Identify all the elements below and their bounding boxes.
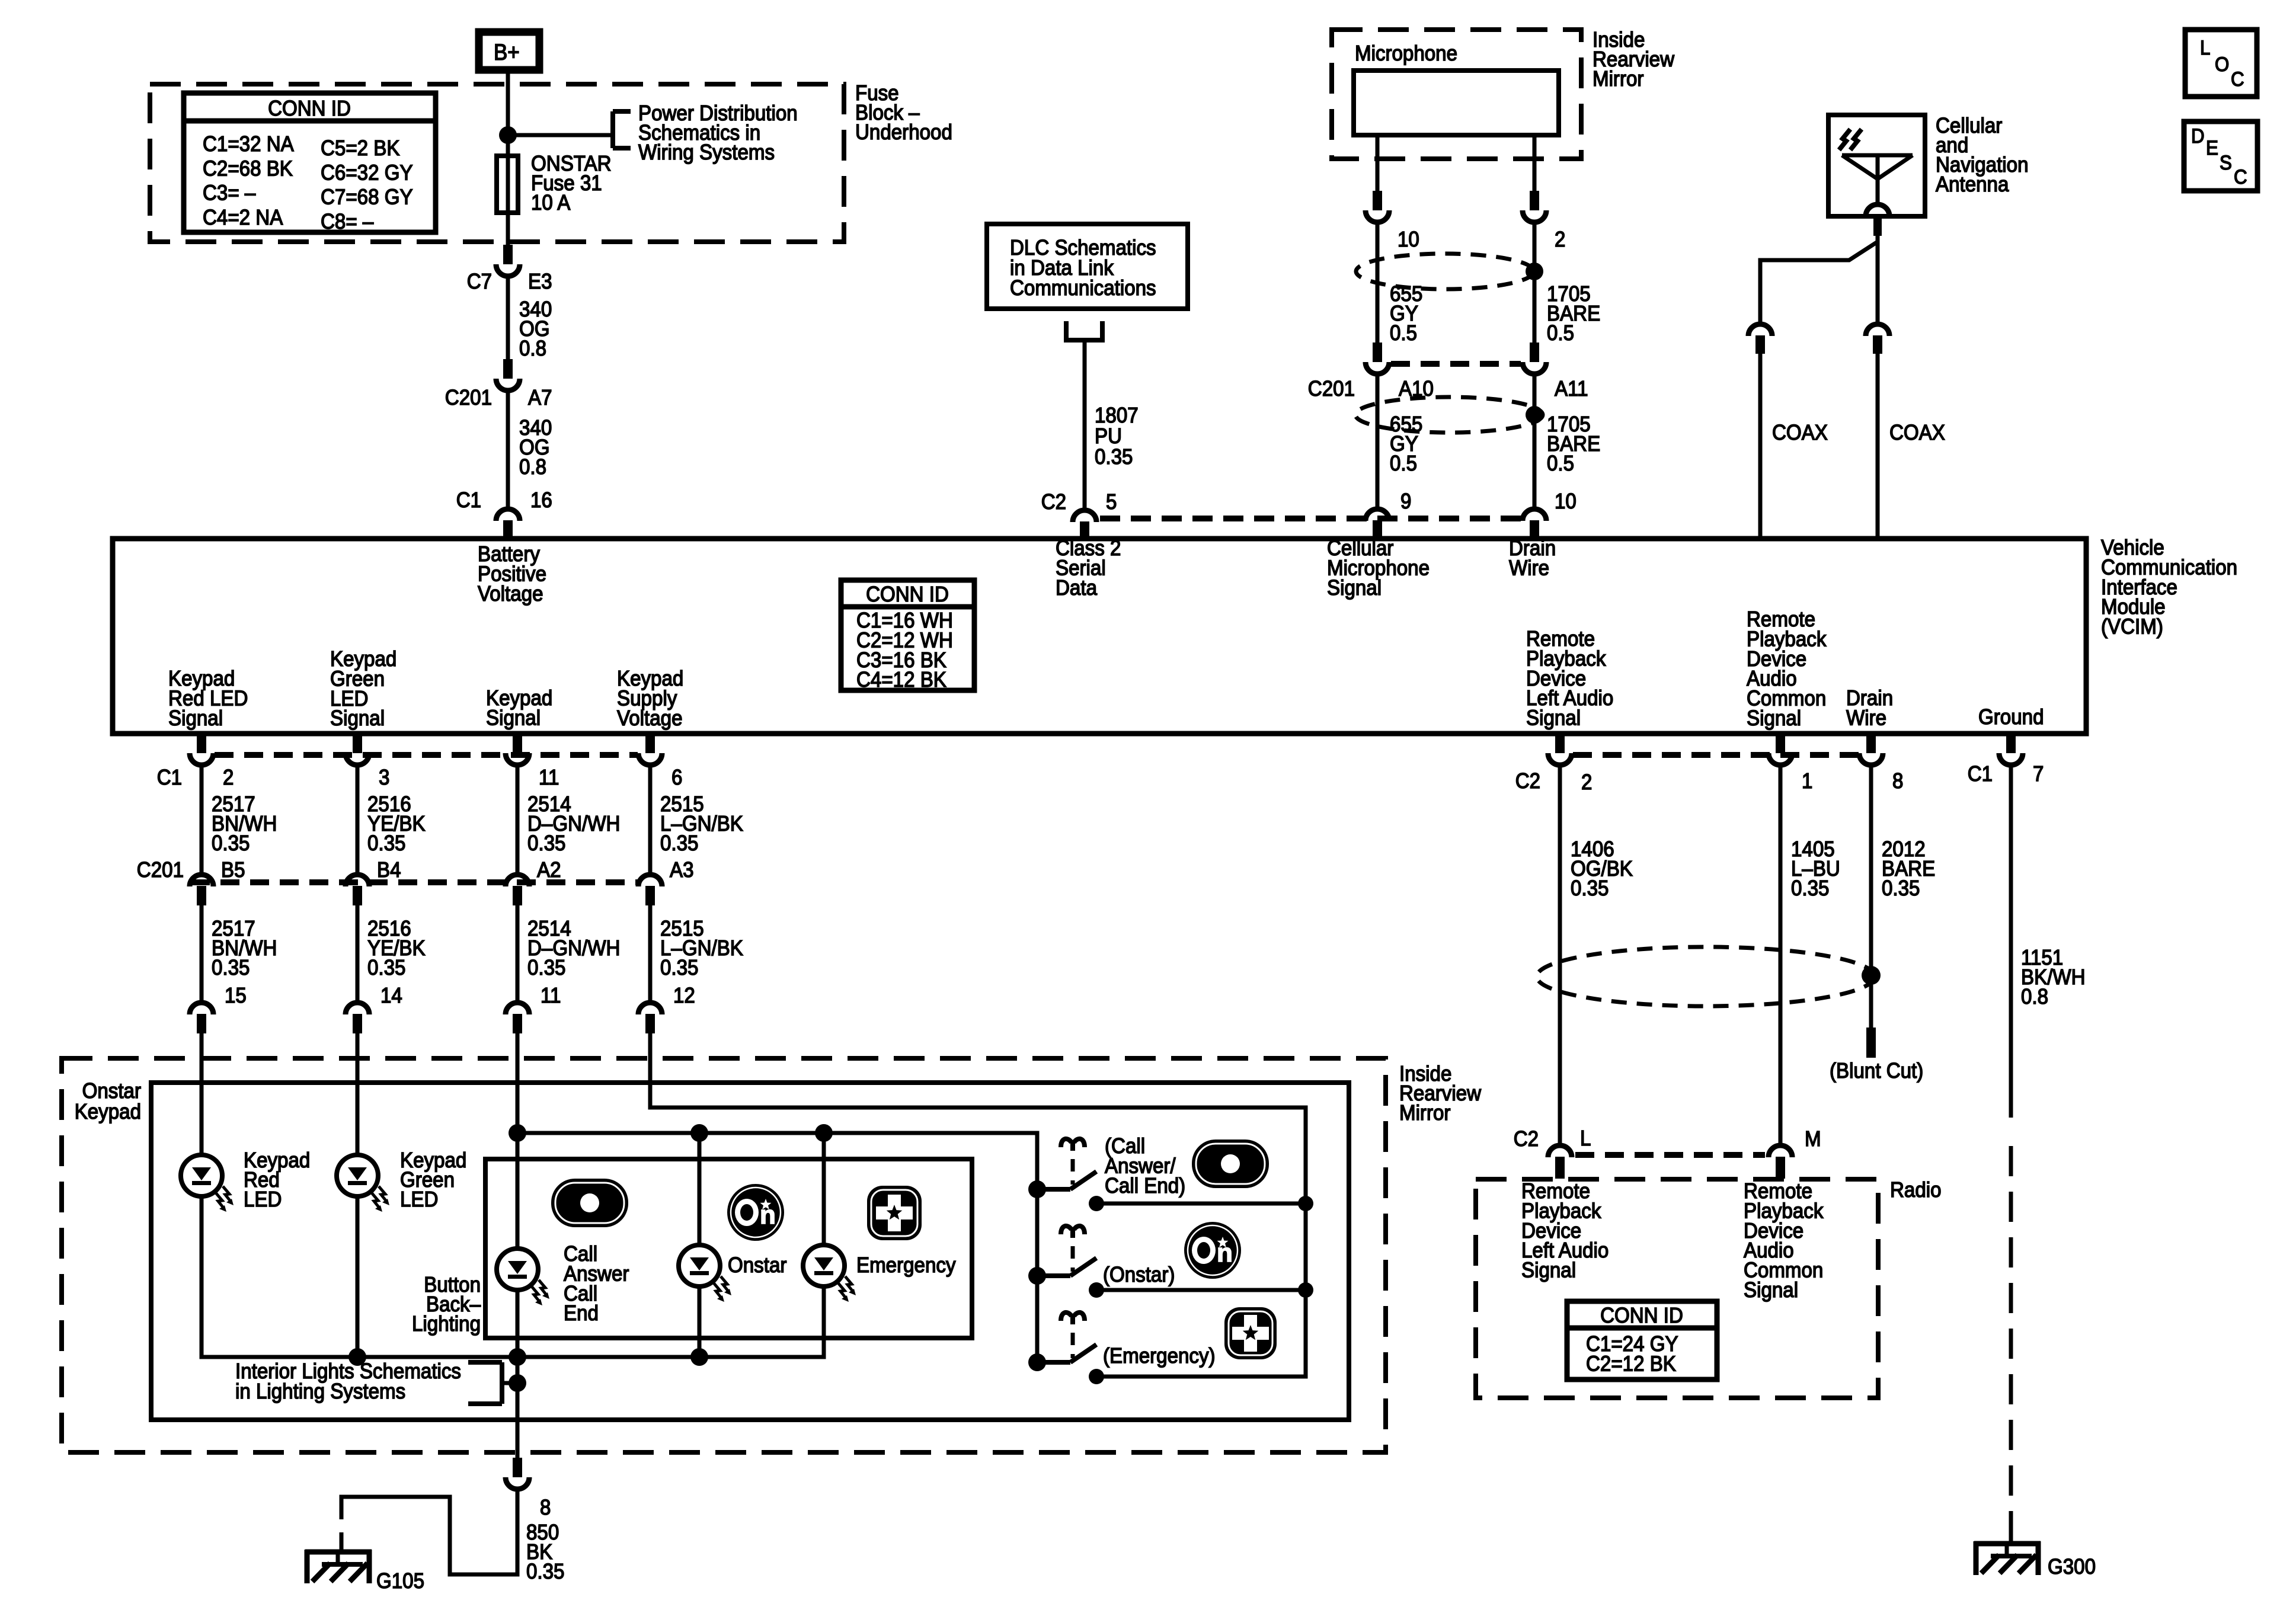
wire: circuit 2514 seg1 [516, 766, 520, 875]
svg-text:Mirror: Mirror [1399, 1100, 1450, 1125]
svg-text:Antenna: Antenna [1936, 172, 2009, 196]
wire: red led to rail [202, 1196, 824, 1357]
junction node on B+ wire [499, 126, 517, 144]
connector C2 pin 2 [1548, 734, 1572, 765]
microphone dashed box [1332, 30, 1581, 159]
junction dot supply row1 [1298, 1196, 1313, 1211]
bracket: interior lights pointer [500, 1362, 504, 1404]
wire: G105 stub [340, 1532, 344, 1553]
connector mic signal pin 9 at VCIM [1366, 509, 1389, 540]
svg-text:0.5: 0.5 [1547, 451, 1574, 475]
dashed bus radio row [1575, 1152, 1765, 1158]
connector C201/A10 [1366, 343, 1389, 374]
svg-text:COAX: COAX [1772, 420, 1828, 444]
junction dot cathode rail green [348, 1348, 366, 1366]
VCIM module box [113, 539, 2086, 734]
connector keypad pin 15 [190, 1003, 213, 1033]
twisted pair ellipse (mic) [1356, 254, 1534, 289]
svg-text:C1: C1 [1968, 761, 1993, 786]
connector C201/A7 [496, 359, 520, 391]
junction dot led rail onstar [690, 1124, 708, 1142]
DESC reference box [2184, 121, 2257, 191]
switch emergency lever [1070, 1345, 1096, 1362]
wire: coax left [1758, 354, 1763, 537]
icon onstar (keypad) [727, 1184, 784, 1241]
wire: keypad signal into keypad [516, 1033, 520, 1133]
connector C201 pin B4 [346, 875, 369, 905]
connector C201 pin B5 [190, 875, 213, 905]
antenna connector cup [1866, 204, 1889, 216]
wire: 1151 BK/WH solid [2009, 766, 2013, 1118]
svg-text:E: E [2206, 137, 2218, 159]
connector pin 1 (audio common) [1769, 734, 1792, 765]
twisted pair ellipse (audio) [1537, 947, 1875, 1006]
twisted pair ellipse 2 (C201) [1355, 397, 1543, 433]
svg-text:CONN ID: CONN ID [1600, 1303, 1683, 1327]
svg-text:11: 11 [539, 765, 559, 789]
svg-text:0.35: 0.35 [1095, 444, 1133, 469]
svg-text:Keypad: Keypad [75, 1099, 141, 1124]
svg-text:E3: E3 [528, 269, 552, 293]
svg-text:2: 2 [1555, 227, 1565, 251]
svg-text:Signal: Signal [1521, 1258, 1576, 1282]
svg-text:G105: G105 [376, 1569, 424, 1593]
svg-text:C2: C2 [1515, 769, 1540, 793]
ground G105 [305, 1550, 372, 1583]
svg-text:C7: C7 [467, 269, 492, 293]
svg-text:O: O [2215, 53, 2229, 76]
junction dot cathode rail signal [509, 1348, 526, 1366]
connector C201 pin A3 [638, 875, 662, 905]
svg-text:C5=2 BK: C5=2 BK [321, 136, 400, 160]
svg-text:C2: C2 [1514, 1126, 1539, 1151]
switch call answer/call end pivot [1028, 1180, 1046, 1198]
connector coax left [1748, 324, 1772, 354]
wire: mic left lead [1376, 135, 1380, 192]
bracket: DLC off-page connector [1066, 321, 1102, 340]
connector C1 pin 3 [346, 734, 369, 765]
connector M at radio [1769, 1145, 1792, 1179]
svg-text:15: 15 [225, 983, 247, 1007]
svg-text:L: L [1580, 1126, 1591, 1150]
svg-text:0.35: 0.35 [527, 831, 566, 855]
connector mic pin 2 [1523, 191, 1546, 222]
svg-text:S: S [2220, 152, 2232, 174]
svg-text:C2=68 BK: C2=68 BK [203, 156, 293, 180]
svg-text:Onstar: Onstar [728, 1253, 786, 1277]
svg-text:Voltage: Voltage [617, 706, 683, 730]
svg-text:0.8: 0.8 [519, 454, 546, 479]
svg-text:C201: C201 [445, 385, 492, 409]
svg-text:2: 2 [223, 765, 234, 789]
svg-text:7: 7 [2033, 761, 2044, 786]
junction dot supply row2 [1298, 1282, 1313, 1298]
svg-text:(Onstar): (Onstar) [1103, 1262, 1175, 1286]
svg-text:0.35: 0.35 [660, 831, 699, 855]
svg-text:C1: C1 [157, 765, 182, 789]
connector keypad pin 8 [506, 1458, 529, 1489]
svg-text:8: 8 [1892, 769, 1903, 793]
svg-text:C1: C1 [456, 488, 481, 512]
svg-text:0.35: 0.35 [527, 955, 566, 980]
power symbol B+ box [479, 32, 539, 70]
svg-text:Wire: Wire [1846, 705, 1886, 729]
dashed bus C201 row [191, 879, 638, 885]
connector C7/E3 [496, 245, 520, 276]
svg-text:0.8: 0.8 [2021, 984, 2048, 1009]
svg-text:Call End): Call End) [1105, 1173, 1185, 1198]
wire: circuit 2517 seg2 [200, 905, 204, 1003]
svg-text:Ground: Ground [1978, 705, 2044, 729]
connector C201/A11 [1523, 343, 1546, 374]
svg-text:(Blunt Cut): (Blunt Cut) [1830, 1058, 1923, 1083]
svg-text:B4: B4 [377, 857, 401, 882]
switch onstar lever [1070, 1258, 1096, 1276]
svg-text:C2=12 BK: C2=12 BK [1586, 1351, 1676, 1375]
dashed bus VCIM top row [1100, 516, 1521, 521]
wire: 1705 BARE segment 1 [1533, 223, 1537, 344]
connector keypad pin 12 [638, 1003, 662, 1033]
icon emergency (switch) [1224, 1307, 1277, 1359]
svg-text:L: L [2200, 37, 2210, 59]
svg-text:C201: C201 [137, 857, 184, 882]
wire: coax right [1876, 354, 1880, 537]
svg-text:C: C [2234, 166, 2247, 188]
switch call answer/call end lever [1070, 1172, 1096, 1189]
svg-text:6: 6 [671, 765, 682, 789]
wire: emergency led column [822, 1133, 826, 1245]
wire: circuit 2516 seg1 [356, 766, 360, 875]
svg-text:C7=68 GY: C7=68 GY [321, 185, 413, 209]
svg-text:Microphone: Microphone [1355, 41, 1457, 65]
LED keypad green [337, 1155, 389, 1212]
junction dot cathode rail onstar [690, 1348, 708, 1366]
icon call answer (switch) [1192, 1140, 1269, 1188]
connector C1 pin 6 [638, 734, 662, 765]
svg-text:Emergency: Emergency [856, 1253, 956, 1277]
svg-text:C8= –: C8= – [321, 209, 373, 233]
blunt cut terminal [1866, 1028, 1876, 1058]
wire: 1151 BK/WH dashed to G300 [2009, 1146, 2013, 1523]
connector C2 pin 5 at VCIM [1073, 510, 1096, 540]
svg-text:Radio: Radio [1890, 1177, 1942, 1202]
svg-text:Underhood: Underhood [855, 120, 952, 144]
svg-text:1: 1 [1802, 769, 1812, 793]
LED onstar [679, 1245, 731, 1302]
svg-text:10 A: 10 A [531, 190, 570, 215]
connector pin 8 (drain) [1859, 734, 1883, 765]
connector C2/L at radio [1548, 1145, 1572, 1179]
switch onstar pivot [1028, 1267, 1046, 1285]
switch call answer/call end actuator [1061, 1139, 1085, 1185]
wire: circuit 2516 seg2 [356, 905, 360, 1003]
wire: onstar led column [698, 1133, 702, 1245]
wire: 655 GY segment 2 [1376, 375, 1380, 508]
connector keypad pin 14 [346, 1003, 369, 1033]
wire: keypad signal exit [516, 1379, 520, 1458]
wire: circuit 2514 seg2 [516, 905, 520, 1003]
wire: circuit 2515 seg1 [648, 766, 653, 875]
svg-text:CONN ID: CONN ID [268, 96, 351, 120]
svg-text:C4=2 NA: C4=2 NA [203, 205, 283, 229]
svg-text:Signal: Signal [168, 706, 223, 730]
wire: circuit 2517 seg1 [200, 766, 204, 875]
radio dashed box [1476, 1179, 1878, 1398]
button backlighting box [485, 1159, 972, 1338]
svg-text:0.5: 0.5 [1390, 321, 1417, 345]
antenna RF zigzag marks [1839, 129, 1850, 150]
svg-text:Mirror: Mirror [1593, 66, 1643, 91]
svg-text:CONN ID: CONN ID [866, 582, 949, 606]
svg-text:5: 5 [1106, 489, 1117, 514]
ground G300 [1974, 1541, 2041, 1575]
wire: 1406 OG/BK [1558, 766, 1562, 1143]
wire: 1405 L-BU [1779, 766, 1783, 1143]
wire: 850 BK routing [341, 1490, 517, 1574]
wire: 1705 BARE segment 2 [1533, 375, 1537, 508]
svg-text:COAX: COAX [1889, 420, 1945, 444]
svg-text:10: 10 [1398, 227, 1419, 251]
switch call answer/call end output row [1089, 1196, 1104, 1211]
connector C1 pin 11 [506, 734, 529, 765]
junction dot led rail emergency [815, 1124, 833, 1142]
cellular and navigation antenna box [1828, 115, 1925, 216]
wire: mic right lead [1533, 135, 1537, 192]
svg-text:End: End [564, 1301, 599, 1325]
wire: keypad red led feed [200, 1033, 204, 1156]
switch emergency pivot [1028, 1353, 1046, 1371]
svg-text:A11: A11 [1555, 376, 1588, 401]
bracket: power distribution pointer [610, 111, 615, 148]
CONN ID table (fuse block) [184, 93, 436, 232]
antenna symbol [1842, 153, 1913, 158]
wire: 340 OG segment 2 [506, 392, 510, 508]
switch emergency output row [1089, 1369, 1104, 1384]
connector C201 pin A2 [506, 875, 529, 905]
wire: B+ to fuse [506, 73, 510, 245]
svg-text:C2: C2 [1041, 489, 1066, 514]
junction dot on drain (mic ellipse) [1526, 263, 1543, 280]
svg-text:0.5: 0.5 [1390, 451, 1417, 475]
wire: 340 OG segment 1 [506, 277, 510, 360]
svg-text:Signal: Signal [486, 705, 541, 729]
LED call answer [497, 1249, 549, 1305]
svg-text:D: D [2191, 125, 2205, 148]
svg-text:0.35: 0.35 [1571, 876, 1609, 900]
LED emergency [803, 1245, 856, 1302]
svg-text:10: 10 [1555, 489, 1576, 513]
wire: antenna right branch [1876, 239, 1880, 323]
svg-text:C4=12 BK: C4=12 BK [856, 667, 946, 692]
svg-text:0.35: 0.35 [367, 831, 406, 855]
fuse ONSTAR Fuse 31 [497, 156, 518, 213]
svg-text:11: 11 [541, 983, 561, 1007]
switch onstar output row [1089, 1282, 1104, 1298]
svg-text:G300: G300 [2048, 1554, 2096, 1579]
connector mic pin 10 [1366, 191, 1389, 222]
svg-text:Signal: Signal [1526, 706, 1581, 730]
svg-text:B+: B+ [494, 40, 520, 65]
svg-text:M: M [1805, 1126, 1821, 1151]
wire: keypad green led feed [356, 1033, 360, 1156]
svg-text:Signal: Signal [1744, 1278, 1798, 1302]
icon emergency (keypad) [867, 1186, 922, 1240]
svg-text:C3= –: C3= – [203, 181, 255, 205]
svg-text:Communications: Communications [1010, 276, 1156, 300]
connector C1 pin 16 at VCIM [496, 509, 520, 540]
junction dot on drain (audio ellipse) [1862, 966, 1881, 985]
microphone body rectangle [1354, 71, 1559, 135]
svg-text:Signal: Signal [1327, 575, 1382, 600]
dashed bus C2 row (right) [1573, 752, 1859, 758]
antenna connector pin [1873, 216, 1882, 236]
wire: junction to power distribution bracket [508, 133, 613, 137]
svg-text:Signal: Signal [1747, 706, 1801, 730]
switch onstar actuator [1061, 1226, 1085, 1272]
wire: 1807 PU [1083, 340, 1087, 508]
svg-text:8: 8 [540, 1495, 551, 1519]
svg-text:Signal: Signal [330, 706, 385, 730]
keypad inner box [151, 1083, 1349, 1420]
svg-text:0.35: 0.35 [1791, 876, 1830, 900]
wire: 2012 BARE drain [1869, 766, 1873, 1029]
svg-text:0.35: 0.35 [526, 1559, 565, 1583]
svg-text:(VCIM): (VCIM) [2101, 614, 2163, 639]
svg-text:(Emergency): (Emergency) [1103, 1343, 1216, 1368]
svg-text:in Lighting Systems: in Lighting Systems [235, 1379, 405, 1403]
svg-text:C: C [2231, 68, 2244, 91]
svg-text:2: 2 [1581, 770, 1592, 794]
dashed bus C1 row [215, 752, 638, 758]
svg-text:9: 9 [1400, 489, 1411, 513]
wire: green led to rail [356, 1196, 360, 1357]
wire: antenna splitter [1760, 236, 1878, 323]
svg-text:0.35: 0.35 [212, 831, 250, 855]
wire: G300 stub [2009, 1523, 2013, 1545]
wire: onstar led down [698, 1286, 702, 1357]
connector coax right [1866, 324, 1889, 354]
svg-text:14: 14 [380, 983, 402, 1007]
svg-text:0.35: 0.35 [212, 955, 250, 980]
svg-text:0.8: 0.8 [519, 336, 546, 360]
wire: call answer led column [516, 1133, 520, 1249]
junction dot on drain (ellipse 2) [1526, 406, 1543, 424]
wire: keypad supply rail and right feed [650, 1033, 1306, 1377]
svg-text:C1=32 NA: C1=32 NA [203, 132, 294, 156]
svg-text:Lighting: Lighting [412, 1311, 481, 1336]
CONN ID table (radio) [1567, 1301, 1717, 1379]
svg-text:LED: LED [244, 1187, 282, 1211]
svg-text:0.5: 0.5 [1547, 321, 1574, 345]
junction dot interior lights tap [509, 1374, 526, 1392]
svg-text:0.35: 0.35 [660, 955, 699, 980]
icon onstar (switch) [1184, 1222, 1241, 1279]
connector C1 pin 7 (ground) [1999, 734, 2023, 765]
svg-text:A2: A2 [537, 857, 561, 882]
svg-text:C201: C201 [1308, 376, 1355, 401]
LED keypad red [181, 1155, 234, 1212]
wire: 655 GY segment 1 [1376, 223, 1380, 344]
wire: circuit 2515 seg2 [648, 905, 653, 1003]
svg-text:12: 12 [673, 983, 695, 1007]
wire: call answer led down [516, 1290, 520, 1420]
switch emergency actuator [1061, 1313, 1085, 1358]
onstar keypad dashed box [62, 1058, 1386, 1452]
dashed bus C201 mic row [1391, 361, 1521, 367]
svg-text:0.35: 0.35 [1882, 876, 1920, 900]
svg-text:Wiring Systems: Wiring Systems [638, 140, 775, 164]
connector keypad pin 11 [506, 1003, 529, 1033]
svg-text:A7: A7 [528, 385, 552, 409]
svg-text:Data: Data [1056, 575, 1098, 600]
svg-text:Voltage: Voltage [478, 581, 543, 606]
connector drain pin 10 at VCIM [1523, 509, 1546, 540]
CONN ID table (VCIM) [841, 580, 974, 690]
wire: led rail [517, 1133, 1037, 1362]
fuse block dashed box [150, 84, 844, 242]
svg-text:Wire: Wire [1509, 555, 1549, 580]
svg-text:A3: A3 [670, 857, 694, 882]
svg-text:3: 3 [379, 765, 389, 789]
svg-text:LED: LED [400, 1187, 438, 1211]
DLC Schematics box [987, 224, 1188, 309]
svg-text:C6=32 GY: C6=32 GY [321, 160, 413, 184]
icon call answer/call end (keypad) [551, 1179, 628, 1227]
svg-text:B5: B5 [221, 857, 245, 882]
junction dot keypad signal/led rail [509, 1124, 526, 1142]
connector C1 pin 2 [190, 734, 213, 765]
LOC reference box [2185, 30, 2257, 97]
svg-text:16: 16 [530, 488, 552, 512]
svg-text:0.35: 0.35 [367, 955, 406, 980]
